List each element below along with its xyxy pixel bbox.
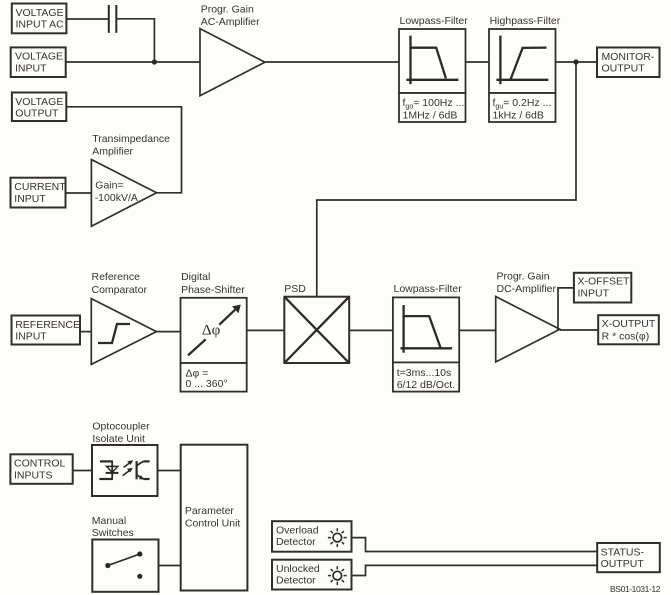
LED leads xyxy=(100,460,113,462)
svg-text:X-OFFSET: X-OFFSET xyxy=(578,276,631,288)
svg-text:INPUT: INPUT xyxy=(578,287,610,299)
box VOLTAGE INPUT xyxy=(11,47,66,77)
label Progr. Gain DC-Amplifier xyxy=(497,271,557,296)
svg-text:Manual: Manual xyxy=(92,515,126,527)
svg-text:-100kV/A: -100kV/A xyxy=(95,192,138,204)
box Parameter Control Unit xyxy=(181,445,248,591)
wire highpass to MONITOR-OUTPUT xyxy=(556,61,598,63)
svg-text:Comparator: Comparator xyxy=(92,284,148,296)
svg-text:CONTROL: CONTROL xyxy=(14,458,65,470)
svg-text:Isolate Unit: Isolate Unit xyxy=(92,433,145,445)
box CONTROL INPUTS xyxy=(10,454,72,484)
node A junction dot xyxy=(152,59,157,64)
wire REFERENCE INPUT to comparator xyxy=(80,331,91,333)
box Unlocked Detector xyxy=(272,560,352,590)
lowpass filter block (middle) xyxy=(393,297,459,362)
node B junction dot xyxy=(573,59,578,64)
box STATUS-OUTPUT xyxy=(597,543,660,572)
wire lowpass 2 to DC amplifier xyxy=(459,329,496,331)
wire from VOLTAGE INPUT AC to capacitor C1 xyxy=(66,18,108,20)
wire overload detector to STATUS-OUTPUT xyxy=(352,538,598,552)
svg-text:Δφ: Δφ xyxy=(202,322,221,338)
wire optocoupler to parameter control unit xyxy=(158,470,181,472)
svg-text:INPUT AC: INPUT AC xyxy=(16,19,65,31)
wire DC amplifier to X-OUTPUT xyxy=(560,329,598,331)
value label t=3ms...10s 6/12 dB/Oct. xyxy=(393,362,459,391)
wire PSD to lowpass filter 2 xyxy=(349,329,393,331)
wire VOLTAGE INPUT to AC amplifier xyxy=(66,61,200,63)
box X-OFFSET INPUT xyxy=(574,273,631,303)
svg-text:Progr. Gain: Progr. Gain xyxy=(201,3,254,15)
PSD multiplier block xyxy=(284,297,349,363)
lowpass filter block (top) xyxy=(399,29,466,93)
comparator U2 xyxy=(91,299,156,365)
svg-text:Control Unit: Control Unit xyxy=(185,517,241,529)
svg-text:1MHz / 6dB: 1MHz / 6dB xyxy=(403,109,458,121)
light arrows xyxy=(123,471,130,476)
svg-text:DC-Amplifier: DC-Amplifier xyxy=(497,283,557,295)
svg-text:Parameter: Parameter xyxy=(185,505,235,517)
svg-text:Transimpedance: Transimpedance xyxy=(92,133,170,145)
svg-text:AC-Amplifier: AC-Amplifier xyxy=(201,16,260,28)
box CURRENT INPUT xyxy=(11,178,67,208)
box VOLTAGE INPUT AC xyxy=(12,4,67,34)
op-amp transimpedance amplifier xyxy=(91,160,156,227)
op-amp DC amplifier xyxy=(496,297,560,363)
value label phase range 0...360 xyxy=(181,363,247,392)
box VOLTAGE OUTPUT xyxy=(12,93,66,122)
label Optocoupler Isolate Unit xyxy=(92,421,150,445)
box Overload Detector xyxy=(272,521,352,552)
svg-text:PSD: PSD xyxy=(284,283,306,295)
svg-text:Phase-Shifter: Phase-Shifter xyxy=(181,284,245,296)
svg-text:0 ... 360°: 0 ... 360° xyxy=(186,378,228,390)
value label Gain= -100kV/A xyxy=(95,179,138,204)
svg-text:Digital: Digital xyxy=(181,271,210,283)
wire manual switches to parameter control unit xyxy=(159,565,181,567)
wire node B down and left to PSD input xyxy=(317,62,576,297)
box X-OUTPUT R*cos xyxy=(598,315,659,344)
svg-text:VOLTAGE: VOLTAGE xyxy=(16,7,64,19)
svg-text:R * cos(φ): R * cos(φ) xyxy=(602,331,650,343)
svg-text:Highpass-Filter: Highpass-Filter xyxy=(490,15,561,27)
svg-text:OUTPUT: OUTPUT xyxy=(601,558,645,570)
svg-text:INPUT: INPUT xyxy=(15,62,47,74)
digital phase shifter block xyxy=(181,298,247,363)
svg-text:Switches: Switches xyxy=(92,527,134,539)
svg-text:CURRENT: CURRENT xyxy=(14,181,66,193)
LED triangle xyxy=(107,466,118,472)
lamp unlocked indicator xyxy=(328,566,347,585)
svg-text:Lowpass-Filter: Lowpass-Filter xyxy=(394,283,463,295)
wire phase shifter to PSD xyxy=(247,329,285,331)
svg-text:1kHz / 6dB: 1kHz / 6dB xyxy=(493,109,544,121)
highpass filter block xyxy=(489,29,556,93)
svg-text:INPUT: INPUT xyxy=(14,193,46,205)
phototransistor xyxy=(136,461,138,479)
svg-text:REFERENCE: REFERENCE xyxy=(15,319,80,331)
svg-text:Lowpass-Filter: Lowpass-Filter xyxy=(400,15,469,27)
svg-text:Amplifier: Amplifier xyxy=(92,145,133,157)
svg-text:Overload: Overload xyxy=(276,525,319,537)
svg-text:Unlocked: Unlocked xyxy=(276,563,320,575)
svg-text:Progr. Gain: Progr. Gain xyxy=(497,271,550,283)
wire AC amplifier to Lowpass-Filter xyxy=(265,61,399,63)
svg-text:OUTPUT: OUTPUT xyxy=(602,63,646,75)
svg-text:6/12 dB/Oct.: 6/12 dB/Oct. xyxy=(397,379,455,391)
svg-text:INPUT: INPUT xyxy=(15,331,47,343)
label Progr. Gain AC-Amplifier xyxy=(201,3,260,28)
box REFERENCE INPUT xyxy=(12,316,81,345)
optocoupler U3 block xyxy=(92,445,158,496)
svg-text:Optocoupler: Optocoupler xyxy=(92,421,150,433)
box MONITOR-OUTPUT xyxy=(597,48,660,78)
value label fgu= 0.2Hz ... 1kHz / 6dB xyxy=(489,93,556,122)
svg-text:t=3ms...10s: t=3ms...10s xyxy=(397,367,452,379)
svg-text:VOLTAGE: VOLTAGE xyxy=(15,96,63,108)
svg-text:STATUS-: STATUS- xyxy=(601,546,645,558)
svg-text:MONITOR-: MONITOR- xyxy=(602,51,655,63)
wire CONTROL INPUTS to optocoupler xyxy=(73,470,92,472)
lamp overload indicator xyxy=(328,528,347,547)
label Reference Comparator xyxy=(92,271,148,296)
svg-text:VOLTAGE: VOLTAGE xyxy=(15,51,63,63)
svg-text:INPUTS: INPUTS xyxy=(14,469,53,481)
wire X-OFFSET INPUT down to output node xyxy=(558,288,574,330)
label Transimpedance Amplifier xyxy=(92,133,170,157)
value label fgo= 100Hz ... 1MHz / 6dB xyxy=(399,93,466,122)
svg-text:Reference: Reference xyxy=(92,271,141,283)
svg-text:OUTPUT: OUTPUT xyxy=(15,108,59,120)
svg-text:BS01-1031-12: BS01-1031-12 xyxy=(610,584,661,594)
comparator step symbol xyxy=(98,324,130,343)
wire comparator to phase shifter xyxy=(156,331,180,333)
wire VOLTAGE OUTPUT to transimpedance amplifier output xyxy=(66,107,181,193)
svg-text:Detector: Detector xyxy=(276,575,316,587)
svg-text:X-OUTPUT: X-OUTPUT xyxy=(602,318,656,330)
wire unlocked detector to STATUS-OUTPUT xyxy=(352,565,598,575)
svg-text:Gain=: Gain= xyxy=(95,179,123,191)
wire from capacitor C1 down to node A xyxy=(117,19,154,62)
svg-text:Detector: Detector xyxy=(276,536,316,548)
capacitor C1 (AC coupling) xyxy=(109,5,117,33)
label Digital Phase-Shifter xyxy=(181,271,245,296)
wire lowpass to highpass xyxy=(466,61,490,63)
manual switches block xyxy=(92,540,158,592)
wire CURRENT INPUT to transimpedance amplifier xyxy=(66,192,92,194)
label Manual Switches xyxy=(92,515,134,539)
op-amp AC amplifier xyxy=(200,29,265,96)
